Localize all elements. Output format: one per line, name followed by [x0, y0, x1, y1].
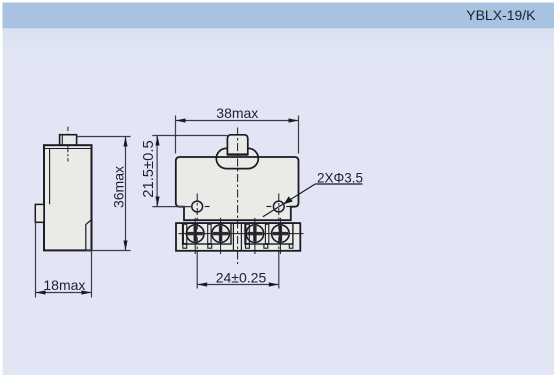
- side view button centerline above: [67, 127, 69, 134]
- left hole vertical centerline: [196, 194, 198, 257]
- screw S3: [246, 218, 264, 254]
- side view body: [44, 145, 92, 250]
- 36max top extension line: [77, 136, 131, 138]
- front view boss (stadium): [216, 148, 258, 168]
- svg-text:2XΦ3.5: 2XΦ3.5: [317, 170, 363, 185]
- left hole right tick: [205, 206, 210, 208]
- screw S2: [212, 218, 230, 254]
- terminal clamp strip T1: [183, 224, 186, 243]
- 24 arrows: [197, 282, 207, 286]
- 21.5 top extension line: [152, 135, 227, 137]
- 24±0.25 dimension: [197, 256, 279, 289]
- 38max dimension: [176, 116, 299, 154]
- terminal clamp strip T2: [208, 224, 211, 243]
- 38max right extension line: [298, 116, 300, 154]
- 18max dimension: [36, 222, 92, 297]
- right hole left tick: [266, 206, 271, 208]
- terminal clamp strip T3: [246, 224, 249, 243]
- screw S4: [272, 218, 290, 254]
- 2XΦ3.5 underline: [316, 183, 363, 185]
- 36max dimension line: [125, 137, 127, 251]
- plunger bottom thick edge: [227, 153, 247, 155]
- side view left seam line: [49, 149, 51, 205]
- subtle band under header: [3, 28, 555, 60]
- wire entry square W3: [246, 244, 250, 248]
- side view button centerline below: [67, 146, 69, 161]
- svg-text:38max: 38max: [216, 105, 258, 121]
- front view plunger button: [227, 135, 247, 155]
- center partition right line: [240, 223, 242, 250]
- front view body: [176, 157, 299, 220]
- 18max left extension line: [35, 222, 37, 297]
- wire entry square W4: [264, 244, 268, 248]
- side view plunger button: [60, 135, 77, 146]
- right hole vertical centerline: [278, 194, 280, 257]
- screw S1: [186, 218, 204, 254]
- 36max arrows: [123, 137, 127, 147]
- center partition left line: [232, 223, 234, 250]
- 38max dimension line: [176, 120, 299, 122]
- side view inner right line with chamfer: [86, 220, 92, 250]
- right hole right tick: [286, 206, 291, 208]
- 21.5 bottom extension line: [152, 206, 192, 208]
- 36max bottom extension line: [86, 250, 131, 252]
- 36max dimension: [77, 137, 131, 251]
- screw horizontal centerline: [179, 233, 304, 235]
- wire entry square W5: [289, 244, 293, 248]
- side view mounting lug: [35, 204, 44, 222]
- 24 dimension line: [197, 284, 279, 286]
- 18max right extension line: [91, 251, 93, 298]
- 38max arrows: [176, 118, 186, 122]
- wire entry square W2: [208, 244, 212, 248]
- svg-text:24±0.25: 24±0.25: [216, 269, 267, 285]
- wire entry square W1: [183, 244, 187, 248]
- 18max arrows: [36, 290, 46, 294]
- central centerline: [237, 128, 239, 265]
- side view button inner line: [61, 135, 63, 146]
- right compartment: [245, 223, 293, 244]
- svg-text:36max: 36max: [111, 166, 127, 208]
- svg-text:YBLX-19/K: YBLX-19/K: [466, 7, 536, 23]
- left compartment: [183, 223, 231, 244]
- 24 right extension line: [278, 256, 280, 289]
- 2XΦ3.5 leader arrow: [284, 196, 293, 204]
- 24 left extension line: [196, 256, 198, 289]
- right mounting hole: [273, 201, 284, 212]
- svg-text:21.5±0.5: 21.5±0.5: [141, 140, 157, 198]
- 2XΦ3.5 leader line: [263, 184, 316, 217]
- 21.5 dimension line: [156, 136, 158, 207]
- 18max dimension line: [36, 292, 92, 294]
- 38max left extension line: [175, 116, 177, 154]
- body top edge through boss: [217, 156, 258, 158]
- 21.5±0.5 dimension: [152, 136, 227, 207]
- svg-text:18max: 18max: [43, 277, 85, 293]
- side view top seam line: [44, 148, 92, 150]
- header bar: [3, 3, 555, 29]
- terminal clamp strip T4: [265, 224, 268, 243]
- terminal block outer box: [176, 223, 300, 251]
- left mounting hole: [192, 201, 203, 212]
- 21.5 arrows: [155, 136, 159, 146]
